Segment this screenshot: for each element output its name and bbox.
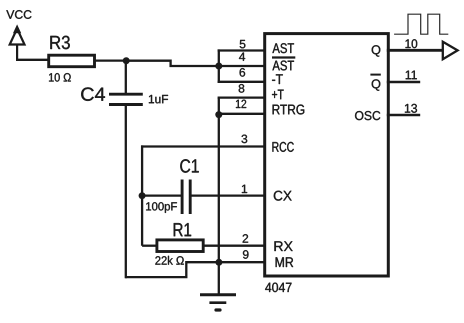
label pin 8 — [239, 84, 245, 93]
label VCC — [6, 10, 31, 19]
label 4047 — [265, 283, 291, 293]
wire R3 to node — [95, 59, 127, 61]
wire pin 3 / RCC — [141, 145, 266, 147]
wire VCC to R3 — [16, 59, 49, 61]
label pin 9 — [243, 250, 249, 259]
pin label Q-bar overline — [370, 74, 380, 76]
pin label Q-bar — [372, 79, 381, 90]
wire ground net to C4 (routed) — [125, 262, 219, 277]
wire left branch (RCC-C1-R1) — [141, 145, 143, 245]
pin label RCC — [272, 142, 293, 152]
label pin 4 — [239, 53, 245, 61]
wire Q output / pin 10 — [387, 49, 443, 52]
node pin 12 junction — [215, 111, 222, 118]
resistor R1 — [157, 240, 203, 252]
label R1 — [174, 223, 191, 236]
label C4 — [81, 87, 105, 100]
capacitor C1 — [182, 180, 190, 215]
wire node to C4 — [125, 61, 127, 94]
wire node to IC pin4 bus (with jog) — [126, 61, 219, 66]
pin label OSC — [355, 111, 380, 120]
wire pins 8-12 ground bus — [218, 98, 220, 294]
node C1 left junction — [139, 192, 146, 199]
label C1 — [180, 159, 198, 172]
op-amp U1 : IC 4047 body — [265, 34, 389, 276]
wire pin 12 — [219, 113, 266, 115]
label pin 1 — [242, 185, 247, 193]
wire pin 11 — [387, 81, 420, 83]
pin label +T — [272, 90, 284, 100]
wire pin 6 — [218, 81, 266, 83]
wire pins 5-4-6 bus — [218, 49, 220, 83]
pin label Q — [372, 45, 381, 56]
node pin 4 junction — [215, 63, 222, 70]
label 100pF — [146, 202, 177, 213]
wire pin 8 — [218, 96, 266, 98]
wire pin 13 — [387, 114, 420, 116]
capacitor C4 — [109, 94, 143, 104]
label 1uF — [149, 95, 168, 103]
label pin 10 — [406, 39, 418, 48]
pin label RTRG — [273, 105, 305, 115]
label pin 5 — [240, 40, 246, 48]
node ground junction — [215, 259, 222, 266]
wire C4 down to ground net — [125, 105, 127, 279]
resistor R3 — [49, 55, 95, 66]
wire pin 1 / CX — [192, 194, 267, 196]
label 10 Ohm — [49, 73, 71, 82]
wire R1 left lead — [142, 245, 157, 247]
wire pin 9 / MR — [219, 261, 266, 263]
wire pin 5 — [218, 49, 266, 51]
pin label CX — [274, 191, 292, 201]
label pin 6 — [240, 68, 246, 77]
label pin 3 — [242, 135, 248, 144]
output port triangle — [443, 42, 458, 59]
label R3 — [50, 36, 69, 49]
label pin 11 — [406, 71, 417, 80]
label pin 13 — [405, 104, 417, 113]
square wave symbol — [394, 14, 448, 34]
wire pin 4 — [219, 65, 266, 67]
pin label AST (pin5) — [272, 43, 294, 53]
pin label AST-bar overline — [272, 56, 295, 58]
label pin 12 — [236, 100, 246, 108]
pin label AST (pin4) — [272, 61, 294, 71]
wire pin 2 / RX — [204, 245, 267, 247]
node R3/C4 junction — [123, 57, 130, 64]
pin label MR — [276, 257, 294, 267]
pin label -T — [272, 74, 283, 84]
wire C1 left lead — [142, 194, 181, 196]
pin label RX — [274, 241, 292, 251]
ground symbol — [200, 295, 236, 310]
label 22k Ohm — [155, 256, 183, 265]
label pin 2 — [243, 234, 248, 242]
VCC power symbol — [10, 25, 25, 60]
